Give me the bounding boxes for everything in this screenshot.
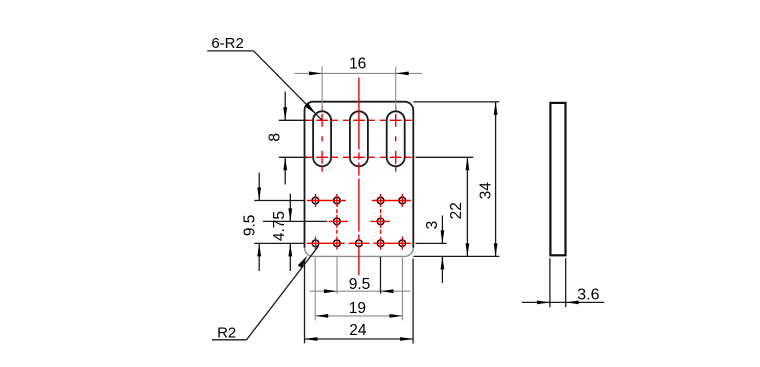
svg-text:3.6: 3.6 <box>577 286 599 303</box>
svg-text:19: 19 <box>349 300 366 317</box>
svg-text:R2: R2 <box>217 325 236 342</box>
svg-text:6-R2: 6-R2 <box>211 35 244 52</box>
svg-text:9.5: 9.5 <box>349 276 371 293</box>
svg-text:3: 3 <box>424 221 441 230</box>
svg-text:9.5: 9.5 <box>241 215 258 237</box>
svg-text:22: 22 <box>448 202 465 219</box>
svg-text:8: 8 <box>266 133 283 142</box>
svg-text:34: 34 <box>477 182 494 200</box>
svg-text:24: 24 <box>349 322 367 339</box>
svg-text:16: 16 <box>349 56 366 73</box>
svg-text:4.75: 4.75 <box>271 211 288 241</box>
